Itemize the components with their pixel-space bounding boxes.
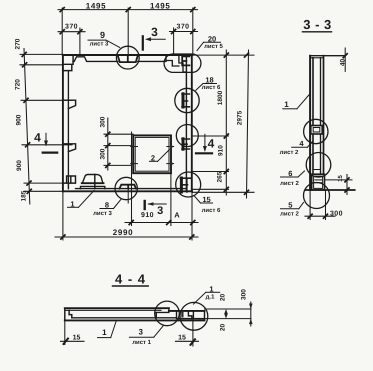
svg-text:910: 910 bbox=[218, 145, 225, 156]
svg-text:2975: 2975 bbox=[237, 110, 244, 125]
svg-text:лист 1: лист 1 bbox=[132, 339, 151, 346]
dim 40 at top right bbox=[344, 48, 346, 71]
wire: plan top outer edge bbox=[63, 54, 192, 56]
svg-text:15: 15 bbox=[337, 175, 344, 182]
detail circle top centre bbox=[116, 46, 139, 69]
dim line bottom 910 / A bbox=[125, 222, 198, 224]
dim 370 left bbox=[58, 31, 85, 33]
detail circle 3-3 top bbox=[304, 119, 328, 143]
centre axis line lower segment bbox=[127, 185, 129, 203]
svg-text:1: 1 bbox=[284, 100, 289, 109]
section mark 4 left bbox=[34, 131, 57, 153]
dim line left vertical 270/720/900/900/185 bbox=[24, 49, 30, 205]
panel top outer line bbox=[65, 307, 169, 309]
section mark 3 top bbox=[143, 25, 165, 50]
section mark 3 bottom bbox=[145, 201, 167, 217]
dim 300/300 at opening bbox=[107, 118, 109, 170]
svg-text:1800: 1800 bbox=[217, 90, 224, 105]
label 18 / sheet 6 bbox=[196, 76, 221, 92]
PLAN VIEW bbox=[63, 46, 201, 203]
detail circle right upper bbox=[175, 88, 199, 112]
detail circle 4-4 left bbox=[155, 301, 180, 326]
panel bottom outer line bbox=[65, 319, 205, 321]
dim line right vertical 1800/910/265 bbox=[225, 50, 227, 195]
detail circle 3-3 bottom bbox=[304, 183, 330, 209]
detail circle 3-3 middle bbox=[306, 153, 331, 178]
PLAN DIMENSIONS bbox=[20, 8, 254, 240]
extension lines below plan bbox=[62, 191, 64, 240]
dim line top 1495+1495 bbox=[58, 9, 198, 11]
svg-text:лист 3: лист 3 bbox=[90, 41, 109, 48]
bottom-right corner F bracket bbox=[180, 178, 191, 192]
svg-text:3: 3 bbox=[151, 25, 158, 39]
detail circle bottom right corner bbox=[176, 172, 201, 197]
opening square item 2 inner bbox=[135, 137, 169, 171]
panel recess inner line bbox=[72, 317, 177, 319]
dim 370 right bbox=[170, 31, 198, 33]
wall outer left line bbox=[309, 56, 311, 190]
svg-text:A: A bbox=[174, 211, 180, 220]
label 5 / sheet 2 bbox=[280, 201, 303, 218]
svg-text:4: 4 bbox=[208, 137, 215, 151]
svg-text:185: 185 bbox=[21, 190, 28, 201]
svg-text:20: 20 bbox=[220, 324, 227, 332]
opening square item 2 outer bbox=[133, 135, 171, 173]
right wall bracket E (middle) bbox=[182, 139, 189, 149]
SECTION 3-3 bbox=[280, 17, 355, 220]
svg-text:лист 2: лист 2 bbox=[280, 149, 299, 156]
right wall bracket E (upper) bbox=[182, 94, 189, 107]
bottom-left corner block bbox=[63, 176, 76, 189]
wall inner right line bbox=[320, 58, 322, 174]
top wall centre joint tab bbox=[118, 55, 138, 62]
dim 300 bottom of sec33 bbox=[305, 190, 343, 220]
embed element 4 box bbox=[311, 126, 322, 135]
panel top line right portion bbox=[169, 310, 205, 312]
wire: plan bottom outer edge bbox=[63, 190, 192, 192]
panel top inner line bbox=[66, 309, 161, 311]
dim line right vertical 2975 bbox=[247, 50, 249, 198]
wire: plan bottom inner edge bbox=[76, 188, 187, 190]
svg-text:лист 3: лист 3 bbox=[93, 210, 112, 217]
label 4 / sheet 2 bbox=[280, 139, 313, 156]
svg-text:3 - 3: 3 - 3 bbox=[303, 17, 332, 32]
dim 15 left sec44 bbox=[61, 320, 85, 344]
wire: plan left wall inner edge bbox=[67, 71, 69, 183]
bottom wall dome element bbox=[82, 174, 102, 183]
left wall rib tab (mid upper) bbox=[63, 100, 76, 108]
dim 15 right sec44 bbox=[176, 320, 199, 346]
svg-text:300: 300 bbox=[100, 116, 107, 127]
svg-text:4 - 4: 4 - 4 bbox=[115, 272, 146, 287]
joint box element bbox=[177, 311, 194, 319]
left wall rib tab (mid lower) bbox=[63, 144, 76, 152]
svg-text:д.1: д.1 bbox=[206, 293, 215, 300]
label 1 sec44 bbox=[98, 321, 117, 338]
label 20 / sheet 5 bbox=[197, 34, 224, 50]
svg-text:300: 300 bbox=[100, 148, 107, 159]
label 1 sec33 bbox=[283, 94, 310, 110]
wall bottom line bbox=[306, 189, 355, 191]
svg-text:5: 5 bbox=[288, 201, 292, 210]
PLAN TEXTS bbox=[15, 2, 244, 237]
detail circle bottom centre bbox=[115, 177, 137, 199]
svg-text:лист 2: лист 2 bbox=[280, 180, 299, 187]
dim 15 right of sec33 bbox=[325, 175, 353, 195]
detail oval top right bbox=[164, 54, 201, 72]
bottom wall centre joint tab bbox=[120, 185, 137, 189]
top-right corner block bbox=[179, 55, 187, 72]
anchor tick left lower bbox=[131, 163, 138, 165]
wire: plan outer left wall edge bbox=[62, 55, 64, 191]
svg-text:3: 3 bbox=[138, 328, 143, 337]
wall inner left line bbox=[312, 58, 314, 174]
SECTION 4-4 bbox=[61, 272, 253, 347]
svg-text:1: 1 bbox=[102, 328, 107, 337]
right wall bracket top bbox=[182, 56, 189, 65]
svg-text:20: 20 bbox=[220, 294, 227, 302]
anchor tick right lower bbox=[167, 163, 174, 165]
PLAN LABELS AND SECTION MARKS bbox=[34, 25, 223, 217]
svg-text:4: 4 bbox=[299, 139, 304, 148]
svg-text:40: 40 bbox=[339, 59, 346, 67]
svg-text:370: 370 bbox=[177, 24, 190, 31]
dim lines right of sec44 bbox=[198, 289, 253, 331]
svg-text:910: 910 bbox=[141, 212, 154, 219]
svg-text:370: 370 bbox=[65, 24, 78, 31]
svg-text:900: 900 bbox=[16, 160, 23, 171]
svg-text:720: 720 bbox=[15, 79, 22, 90]
svg-text:1495: 1495 bbox=[86, 2, 107, 11]
wall inner joint tick bbox=[313, 169, 321, 171]
wire: plan right wall inner edge bbox=[185, 55, 187, 191]
label 2 opening bbox=[150, 150, 170, 163]
top-left corner block bbox=[63, 55, 73, 70]
label 6 / sheet 2 bbox=[280, 169, 304, 187]
wire: plan top wall inner edge bbox=[73, 57, 166, 62]
label 1 / d.1 bbox=[194, 285, 220, 305]
svg-text:900: 900 bbox=[16, 114, 23, 125]
label 3 / sheet 1 bbox=[129, 326, 163, 346]
panel bottom inner line right bbox=[193, 318, 204, 320]
svg-text:2990: 2990 bbox=[113, 228, 134, 237]
detail circle right middle bbox=[176, 125, 198, 147]
anchor tick left upper bbox=[131, 146, 138, 148]
label 8 / sheet 3 bbox=[93, 199, 121, 217]
svg-text:лист 5: лист 5 bbox=[204, 43, 223, 50]
dim line bottom 2990 bbox=[55, 236, 198, 238]
detail circle 4-4 right bbox=[180, 302, 208, 330]
svg-text:9: 9 bbox=[100, 30, 105, 40]
svg-text:270: 270 bbox=[15, 38, 22, 49]
svg-text:лист 6: лист 6 bbox=[202, 207, 221, 214]
wall outer right line bbox=[323, 56, 325, 175]
embed element 5 box bbox=[312, 174, 325, 190]
wall top cap bbox=[310, 55, 345, 57]
section mark 4 right bbox=[196, 134, 215, 153]
panel joint step bbox=[155, 308, 169, 317]
anchor tick right upper bbox=[167, 146, 174, 148]
svg-text:15: 15 bbox=[73, 335, 81, 342]
label 9 / sheet 3 bbox=[88, 30, 120, 47]
svg-text:300: 300 bbox=[330, 211, 343, 218]
svg-text:1495: 1495 bbox=[150, 2, 171, 11]
top wall right rib tab bbox=[166, 55, 179, 66]
svg-text:лист 6: лист 6 bbox=[202, 84, 221, 91]
svg-text:3: 3 bbox=[157, 205, 163, 217]
panel left end bbox=[65, 308, 72, 320]
svg-text:15: 15 bbox=[178, 335, 186, 342]
svg-text:4: 4 bbox=[34, 131, 41, 145]
panel right end edge bbox=[204, 311, 206, 321]
svg-text:300: 300 bbox=[241, 289, 248, 300]
wire: plan right wall outer edge bbox=[191, 55, 193, 191]
label 1 plan bbox=[68, 191, 95, 209]
svg-text:лист 2: лист 2 bbox=[280, 211, 299, 218]
label 15 / sheet 6 bbox=[194, 195, 221, 214]
svg-text:265: 265 bbox=[217, 171, 224, 182]
